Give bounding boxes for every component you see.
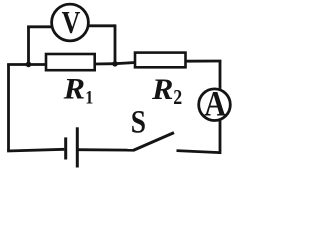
svg-text:V: V (62, 6, 81, 41)
battery: long positive plate (76, 127, 79, 167)
wire: R1 left to node A (29, 63, 47, 66)
svg-text:A: A (204, 84, 226, 124)
battery: short negative plate (64, 137, 67, 159)
svg-text:2: 2 (173, 87, 182, 110)
wire: battery to switch pivot (77, 148, 134, 151)
resistor R1: box (46, 54, 95, 70)
node A junction dot (26, 62, 32, 68)
wire: left vertical side (7, 65, 10, 152)
wire: ammeter top to top-right corner (219, 61, 222, 89)
svg-text:S: S (131, 103, 146, 140)
ammeter A: circle (199, 89, 231, 121)
voltmeter V: circle (52, 4, 89, 41)
wire: voltmeter branch right vertical (114, 24, 117, 63)
wire: bottom left (corner to battery) (7, 149, 64, 151)
wire: switch contact to bottom-right corner (177, 151, 221, 153)
svg-text:R: R (151, 72, 173, 106)
wire: node B to R1 right (95, 62, 115, 65)
resistor R2: box (135, 53, 186, 68)
svg-text:1: 1 (85, 86, 93, 108)
wire: bottom right vertical (corner up to ammeter) (219, 121, 222, 155)
switch S: open blade (134, 133, 175, 151)
wire: R2 to node B (115, 63, 135, 64)
node B junction dot (112, 61, 118, 67)
wire: voltmeter branch left vertical (27, 27, 30, 65)
wire: voltmeter branch left horizontal (27, 25, 51, 28)
wire: voltmeter branch right horizontal (89, 24, 115, 27)
svg-text:R: R (63, 72, 85, 106)
wire: top-right corner to R2 (186, 60, 222, 63)
wire: node A to top-left corner (7, 63, 28, 66)
